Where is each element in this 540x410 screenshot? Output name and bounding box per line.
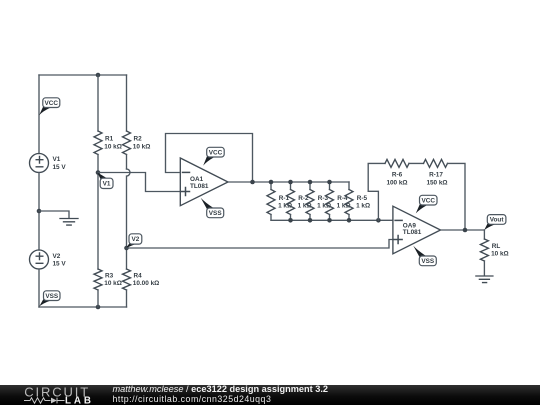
svg-text:VSS: VSS (209, 210, 223, 217)
node Vout label (484, 215, 506, 231)
resistor R-5 (345, 182, 370, 220)
junction OA9 output / feedback (463, 228, 468, 233)
svg-text:VCC: VCC (422, 197, 436, 204)
svg-text:RL: RL (492, 243, 501, 250)
junction node V1 (96, 170, 101, 175)
wire node V2 to OA9 non-inverting input (127, 240, 393, 249)
voltage source V2 15 V (30, 250, 67, 269)
wire R2 branch hop over V1 wire (127, 169, 131, 248)
svg-text:TL081: TL081 (190, 183, 209, 190)
wire left rail mid segment (38, 173, 40, 251)
svg-text:1 kΩ: 1 kΩ (356, 203, 370, 210)
svg-text:VSS: VSS (45, 293, 59, 300)
svg-text:R2: R2 (134, 136, 143, 143)
wire OA1 output to resistor bank top rail (228, 181, 349, 183)
svg-text:10 kΩ: 10 kΩ (104, 280, 122, 287)
svg-text:15 V: 15 V (53, 164, 67, 171)
wire OA1 feedback (output to inverting input) (166, 134, 253, 183)
svg-text:10.00 kΩ: 10.00 kΩ (133, 280, 159, 287)
svg-text:R-5: R-5 (357, 195, 368, 202)
footer bar (0, 385, 540, 406)
svg-text:R1: R1 (105, 136, 114, 143)
wire top rail (39, 74, 127, 76)
wire resistor bank bottom rail to OA9 inverting input (271, 219, 393, 221)
junction feedback tap on bank bottom rail (376, 218, 381, 223)
wire node V1 to OA1 non-inverting input (98, 173, 180, 192)
node V2 label (126, 234, 142, 248)
svg-text:V1: V1 (103, 181, 111, 188)
svg-text:TL081: TL081 (403, 229, 422, 236)
CircuitLab logo (22, 385, 97, 405)
node OA9 VSS label (413, 246, 436, 266)
wire left rail bottom segment (38, 269, 40, 307)
op-amp OA1 TL081 (180, 158, 228, 206)
node V1 label (97, 173, 113, 189)
wire left rail top segment (38, 75, 40, 154)
resistor R4 (123, 248, 160, 307)
svg-text:VCC: VCC (209, 149, 223, 156)
wire OA9 output to load (441, 229, 485, 231)
node VSS label (39, 291, 60, 307)
svg-text:R-17: R-17 (429, 172, 443, 179)
svg-text:VCC: VCC (45, 100, 59, 107)
voltage source V1 15 V (30, 154, 67, 173)
ground at RL (476, 276, 493, 283)
svg-text:R4: R4 (134, 272, 143, 279)
svg-text:10 kΩ: 10 kΩ (491, 251, 509, 258)
wire bottom rail (39, 306, 127, 308)
svg-text:R-6: R-6 (392, 172, 403, 179)
node VCC label (39, 98, 60, 116)
resistor R-3 (306, 182, 331, 220)
junction ground tap (37, 209, 42, 214)
svg-text:100 kΩ: 100 kΩ (386, 179, 407, 186)
svg-text:Vout: Vout (490, 217, 505, 224)
svg-text:15 V: 15 V (53, 261, 67, 268)
wire feedback left leg (368, 163, 385, 220)
resistor R-6 (385, 159, 409, 186)
resistor R-4 (326, 182, 351, 220)
resistor R-17 (424, 159, 448, 186)
resistor R-1 (267, 182, 292, 220)
svg-text:VSS: VSS (421, 258, 435, 265)
junction top rail / R1 branch (96, 73, 101, 78)
resistor RL (480, 230, 508, 276)
node OA1 VCC label (203, 147, 224, 165)
junction bank bottom rail taps (288, 218, 351, 223)
wire feedback right leg to OA9 output (448, 163, 466, 230)
svg-text:LAB: LAB (65, 395, 91, 405)
resistor R-2 (287, 182, 312, 220)
svg-text:10 kΩ: 10 kΩ (104, 143, 122, 150)
svg-text:V2: V2 (131, 236, 139, 243)
wire between R-6 and R-17 (409, 162, 424, 164)
junction bottom rail / R3 branch (96, 305, 101, 310)
resistor R1 (94, 75, 122, 173)
junction bank top rail taps (269, 180, 332, 185)
svg-text:10 kΩ: 10 kΩ (133, 143, 151, 150)
resistor R2 (123, 75, 151, 169)
op-amp OA9 TL081 (393, 206, 441, 254)
svg-text:V2: V2 (53, 253, 61, 260)
svg-text:R3: R3 (105, 272, 114, 279)
node OA1 VSS label (201, 198, 224, 218)
svg-text:V1: V1 (53, 156, 61, 163)
junction OA1 output / feedback (250, 180, 255, 185)
ground (39, 211, 78, 225)
resistor R3 (94, 173, 122, 308)
node OA9 VCC label (416, 195, 437, 213)
svg-text:150 kΩ: 150 kΩ (426, 179, 447, 186)
junction node V2 (124, 246, 129, 251)
